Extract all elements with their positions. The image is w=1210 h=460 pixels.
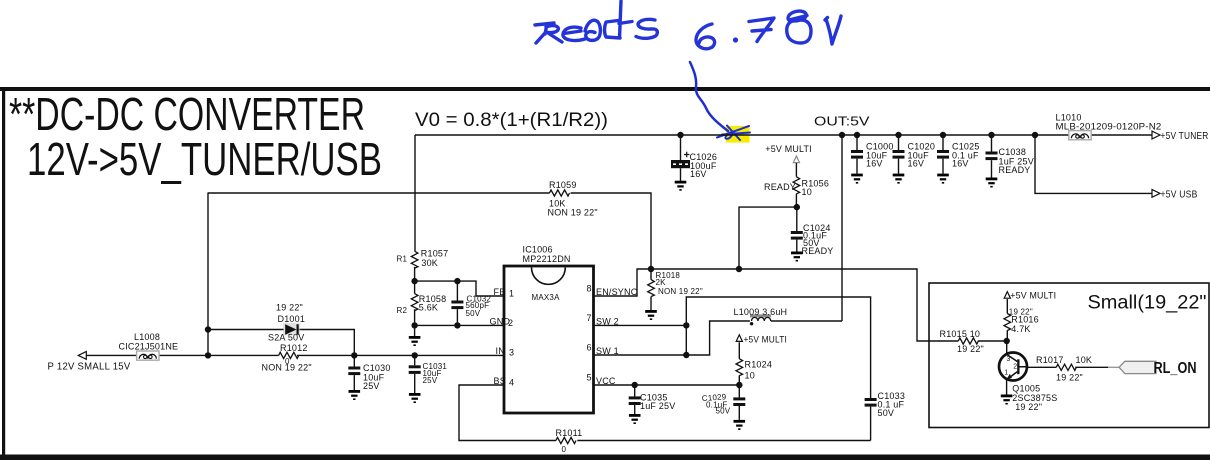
svg-text:2: 2 <box>1013 364 1017 371</box>
capacitor C1000 10uF 16V <box>851 135 894 184</box>
svg-text:50V: 50V <box>716 407 731 416</box>
svg-text:12V->5V_TUNER/USB: 12V->5V_TUNER/USB <box>27 133 382 185</box>
wire: BS bootstrap loop <box>459 385 871 441</box>
svg-text:RL_ON: RL_ON <box>1154 360 1197 377</box>
node: C1031 junction <box>412 352 418 358</box>
wire: SW2 pin line <box>594 324 687 326</box>
svg-text:+5V USB: +5V USB <box>1161 189 1198 201</box>
node: rail junction to L1009 <box>839 132 845 138</box>
wire: base to R1017 <box>1027 366 1108 368</box>
capacitor C1025 0.1uF 16V <box>937 135 980 184</box>
node: C1032 tap <box>454 278 460 284</box>
svg-text:R1016: R1016 <box>1011 315 1039 325</box>
svg-text:2: 2 <box>508 318 513 328</box>
capacitor C1020 10uF 16V <box>893 135 936 184</box>
capacitor C1038 1uF 25V READY <box>986 135 1034 188</box>
node: R1056/C1024 junction <box>794 204 800 210</box>
svg-text:EN/SYNC: EN/SYNC <box>596 287 638 297</box>
svg-text:2K: 2K <box>656 278 667 287</box>
border frame left bar <box>2 87 5 460</box>
svg-text:10K: 10K <box>1076 355 1093 365</box>
op IC1006 MP2212DN body <box>504 245 594 414</box>
sub-circuit box Small(19_22" <box>929 283 1209 428</box>
svg-text:R1057: R1057 <box>421 249 449 259</box>
svg-text:CIC21J501NE: CIC21J501NE <box>119 342 179 352</box>
inductor L1010 MLB-201209-0120P-N2 <box>1056 113 1162 140</box>
svg-text:3: 3 <box>1006 356 1010 363</box>
svg-text:+5V MULTI: +5V MULTI <box>765 144 812 154</box>
svg-text:50V: 50V <box>878 408 895 418</box>
svg-text:IN: IN <box>496 346 505 356</box>
svg-text:1uF 25V: 1uF 25V <box>640 401 675 411</box>
transistor Q1005 2SC3875S <box>999 341 1057 412</box>
svg-text:READY: READY <box>999 165 1031 175</box>
svg-text:19 22": 19 22" <box>957 344 984 354</box>
svg-text:IC1006: IC1006 <box>523 245 553 255</box>
svg-text:50V: 50V <box>466 309 481 318</box>
wire: READY junction to EN line <box>739 207 797 269</box>
svg-text:25V: 25V <box>423 376 438 385</box>
svg-text:3: 3 <box>509 348 514 358</box>
svg-text:READY: READY <box>764 182 796 192</box>
resistor R1024 10 <box>736 342 772 385</box>
svg-text:1: 1 <box>1004 370 1008 377</box>
capacitor C1031 10uF 25V <box>409 355 448 403</box>
net arrow +5V MULTI (READY branch) <box>793 156 799 163</box>
wire: rail to USB branch <box>1035 135 1153 193</box>
connector tag RL_ON <box>1109 360 1197 377</box>
svg-text:L1009 3.6uH: L1009 3.6uH <box>734 307 788 317</box>
svg-text:C1038: C1038 <box>999 147 1027 157</box>
resistor R1016 4.7K <box>1004 299 1039 341</box>
svg-text:1: 1 <box>509 289 514 299</box>
svg-text:R1017: R1017 <box>1036 355 1064 365</box>
svg-text:MP2212DN: MP2212DN <box>523 254 571 264</box>
svg-text:R1024: R1024 <box>745 360 773 370</box>
svg-text:NON 19 22": NON 19 22" <box>658 287 703 296</box>
wire: SW1 pin line to L1009 <box>594 321 843 355</box>
node: rail junction C1025 <box>940 132 946 138</box>
svg-text:L1008: L1008 <box>134 332 160 342</box>
resistor R1057 30K (R1) <box>397 249 449 282</box>
svg-text:MAX3A: MAX3A <box>532 293 561 302</box>
resistor R1015 10 <box>940 329 984 354</box>
node: SW2 junction <box>683 322 689 328</box>
net arrow +5V MULTI (box) <box>1004 292 1010 299</box>
wire: 12V feed up to R1059 <box>207 193 209 355</box>
node: D1001 anode tap <box>205 326 211 332</box>
capacitor C1026 electrolytic <box>671 135 717 191</box>
svg-text:NON 19 22": NON 19 22" <box>262 363 312 373</box>
svg-text:D1001: D1001 <box>278 314 306 324</box>
ground below R1058 <box>409 325 421 346</box>
svg-text:Small(19_22": Small(19_22" <box>1088 293 1207 314</box>
wire: R1059 net from 12V input to EN <box>208 193 652 269</box>
resistor R1018 2K NON <box>645 269 703 320</box>
svg-text:19 22": 19 22" <box>1015 402 1042 412</box>
wire: FB feedback node <box>415 281 504 296</box>
svg-text:10: 10 <box>802 187 812 197</box>
svg-text:OUT:5V: OUT:5V <box>814 115 870 129</box>
svg-text:16V: 16V <box>908 159 925 169</box>
svg-text:+5V MULTI: +5V MULTI <box>744 335 788 345</box>
capacitor C1033 0.1uF 50V bootstrap <box>865 391 905 441</box>
wire: 12V input line <box>86 354 504 356</box>
svg-text:16V: 16V <box>866 159 883 169</box>
capacitor C1032 560pF 50V <box>451 281 491 325</box>
node: rail junction C1020 <box>895 132 901 138</box>
resistor R1011 0 <box>556 428 583 454</box>
node: rail junction at C1026 <box>677 132 683 138</box>
capacitor C1029 0.1uF 50V <box>702 385 746 430</box>
wire: rail down to L1009 output <box>841 135 843 321</box>
node: EN junction R1059/R1018 <box>648 266 654 272</box>
svg-text:READY: READY <box>802 246 834 256</box>
node: SW1 junction <box>683 352 689 358</box>
svg-text:25V: 25V <box>363 381 380 391</box>
svg-text:30K: 30K <box>421 258 438 268</box>
node: C1035 tap <box>632 382 638 388</box>
node: rail junction C1000 <box>854 132 860 138</box>
net arrow +5V TUNER <box>1152 131 1160 139</box>
node: EN junction READY branch <box>736 266 742 272</box>
svg-text:6: 6 <box>587 343 592 353</box>
svg-text:R2: R2 <box>397 306 408 315</box>
svg-text:5.6K: 5.6K <box>419 303 438 313</box>
svg-text:C1030: C1030 <box>363 363 391 373</box>
net arrow +5V USB <box>1152 190 1160 198</box>
inductor L1009 3.6uH <box>734 307 788 325</box>
svg-text:R1012: R1012 <box>280 343 308 353</box>
svg-text:0: 0 <box>562 445 567 454</box>
node: rail junction C1038 <box>988 132 994 138</box>
node: R1024/C1029 junction <box>736 382 742 388</box>
svg-text:8: 8 <box>587 284 592 294</box>
svg-text:16V: 16V <box>690 169 707 179</box>
resistor R1012 NON <box>262 343 312 373</box>
yellow highlighter mark on output net <box>726 126 750 143</box>
capacitor C1024 0.1uF 50V READY <box>791 207 834 261</box>
border frame top bar <box>0 87 1210 91</box>
svg-text:Q1005: Q1005 <box>1012 384 1040 394</box>
capacitor C1035 1uF 25V <box>629 385 676 424</box>
svg-text:4: 4 <box>509 378 514 388</box>
wire: rail down to FB divider <box>414 135 416 251</box>
svg-text:16V: 16V <box>952 159 969 169</box>
resistor R1017 10K <box>1036 355 1092 383</box>
net arrow +5V MULTI (VCC feed) <box>736 335 742 342</box>
svg-text:7: 7 <box>587 313 592 323</box>
border frame bottom bar <box>0 455 1210 460</box>
svg-text:+5V TUNER: +5V TUNER <box>1161 130 1209 142</box>
svg-text:R1011: R1011 <box>556 428 583 438</box>
svg-text:+5V MULTI: +5V MULTI <box>1010 291 1056 301</box>
svg-text:NON 19 22": NON 19 22" <box>548 208 598 218</box>
node: R1015/R1016/collector junction <box>1004 338 1010 344</box>
net arrow P 12V SMALL 15V input <box>78 352 86 360</box>
capacitor C1030 10uF 25V <box>348 355 390 400</box>
svg-text:4.7K: 4.7K <box>1011 324 1030 334</box>
svg-text:R1059: R1059 <box>549 180 577 190</box>
handwritten blue arrow to measured node <box>690 62 750 140</box>
node: C1030 junction <box>351 352 357 358</box>
svg-text:MLB-201209-0120P-N2: MLB-201209-0120P-N2 <box>1056 122 1162 132</box>
svg-text:R1015 10: R1015 10 <box>940 329 981 339</box>
diode D1001 S2A 50V <box>268 303 305 343</box>
resistor R1058 5.6K (R2) <box>397 281 447 325</box>
wire: VCC pin line <box>594 384 740 386</box>
resistor R1059 10K NON <box>548 180 598 218</box>
resistor R1056 10 <box>764 163 829 207</box>
wire: SW tie vertical to bootstrap <box>686 297 870 398</box>
wire: 5V output rail <box>415 134 1153 136</box>
node: rail junction USB branch <box>1032 132 1038 138</box>
node: divider tap <box>411 278 417 284</box>
svg-text:P 12V SMALL 15V: P 12V SMALL 15V <box>48 361 131 373</box>
node: C1032 bottom <box>454 322 460 328</box>
svg-text:19 22": 19 22" <box>1056 373 1083 383</box>
wire: D1001 bypass branch <box>208 330 354 356</box>
node: R1058 bottom <box>411 322 417 328</box>
svg-text:V0 = 0.8*(1+(R1/R2)): V0 = 0.8*(1+(R1/R2)) <box>415 109 608 131</box>
svg-text:R1: R1 <box>397 255 408 264</box>
node: L1008/D1001 junction <box>205 352 211 358</box>
svg-text:19 22": 19 22" <box>276 303 303 313</box>
svg-text:5: 5 <box>587 373 592 383</box>
wire: EN/SYNC line <box>594 269 1007 341</box>
inductor L1008 CIC21J501NE <box>119 332 179 360</box>
svg-text:S2A 50V: S2A 50V <box>268 333 304 343</box>
handwritten annotation "Reads 6.78V" in blue <box>535 1 841 49</box>
wire: GND pin line <box>415 324 504 326</box>
svg-text:10: 10 <box>745 371 755 381</box>
